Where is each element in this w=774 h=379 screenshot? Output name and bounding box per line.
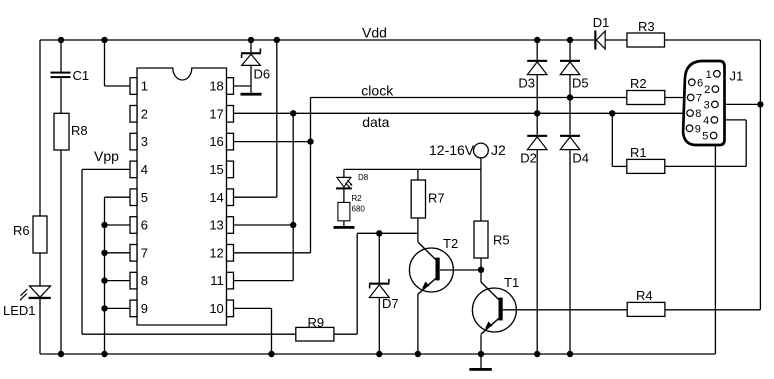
junction xyxy=(478,351,484,357)
svg-text:4: 4 xyxy=(141,162,148,177)
wire J2 down to R5 xyxy=(480,158,482,222)
capacitor C1 xyxy=(51,72,71,74)
svg-text:D2: D2 xyxy=(520,151,537,166)
svg-text:7: 7 xyxy=(696,93,702,105)
svg-text:9: 9 xyxy=(695,123,701,135)
svg-text:R4: R4 xyxy=(636,288,653,303)
J1 pin 1 xyxy=(714,71,721,78)
svg-text:18: 18 xyxy=(209,79,223,94)
svg-text:5: 5 xyxy=(702,131,708,143)
wire J2 branch to R7 and D8 xyxy=(344,168,481,170)
junction xyxy=(58,37,64,43)
wire ground bottom rail xyxy=(40,353,715,355)
wire D7 column xyxy=(378,233,380,282)
junction xyxy=(757,101,763,107)
J1 pin 7 xyxy=(687,94,694,101)
svg-text:12-16V: 12-16V xyxy=(429,142,475,158)
junction xyxy=(567,37,573,43)
wire clock net: pin16 stub xyxy=(234,141,311,143)
svg-text:12: 12 xyxy=(209,245,223,260)
wire R1 branch from data line xyxy=(611,113,613,166)
wire T2 emitter to ground rail xyxy=(417,294,419,354)
IC left pin boxes 1-9 xyxy=(130,78,137,95)
wire pin14 up to Vdd xyxy=(234,196,277,198)
resistor R1 xyxy=(627,159,665,173)
svg-text:R7: R7 xyxy=(428,191,445,206)
J1 pin 8 xyxy=(687,110,694,117)
svg-text:LED1: LED1 xyxy=(3,303,36,318)
svg-text:6: 6 xyxy=(697,77,703,89)
zener diode D6 xyxy=(241,52,261,54)
wire pins 5-9 ground column xyxy=(105,196,131,198)
wire T1 collector riser xyxy=(480,270,482,282)
junction xyxy=(58,351,64,357)
wire D6 column xyxy=(250,40,252,52)
svg-text:9: 9 xyxy=(141,301,148,316)
svg-text:6: 6 xyxy=(141,218,148,233)
J1 pin 9 xyxy=(686,125,693,132)
wire T2 base to R5/T1 node xyxy=(440,269,481,271)
svg-text:J2: J2 xyxy=(491,142,506,158)
wire R5 bottom to node xyxy=(480,258,482,270)
resistor R4 xyxy=(627,302,665,316)
junction xyxy=(307,138,313,144)
transistor T1 xyxy=(472,288,516,332)
J1 pin 4 xyxy=(711,117,718,124)
svg-text:D5: D5 xyxy=(572,76,589,91)
svg-text:Vpp: Vpp xyxy=(94,148,119,164)
resistor R6 xyxy=(33,216,47,253)
svg-text:D8: D8 xyxy=(358,173,369,182)
resistor R3 xyxy=(627,33,665,47)
wire pin stub xyxy=(105,224,131,226)
wire pin10 down to ground rail xyxy=(232,307,271,309)
wire D3/D2 column xyxy=(536,40,538,60)
zener diode D7 xyxy=(369,283,390,285)
resistor R8 xyxy=(54,113,69,150)
svg-text:D4: D4 xyxy=(572,151,589,166)
wire R9 right to Vpp-drive node xyxy=(334,333,357,335)
svg-text:7: 7 xyxy=(141,245,148,260)
junction xyxy=(290,110,296,116)
connector J2 12-16V input xyxy=(474,143,489,158)
junction xyxy=(567,94,573,100)
junction xyxy=(567,351,573,357)
wire R7 bottom to T2 collector node xyxy=(417,218,419,242)
IC U1 body xyxy=(137,68,227,325)
connector J1 DB9 outline xyxy=(683,61,724,145)
svg-text:D3: D3 xyxy=(518,76,535,91)
junction xyxy=(101,37,107,43)
svg-text:11: 11 xyxy=(210,273,224,288)
J1 pin 3 xyxy=(712,101,719,108)
svg-text:R3: R3 xyxy=(638,19,655,34)
svg-text:3: 3 xyxy=(704,99,710,111)
diode D3 xyxy=(527,60,547,62)
svg-text:1: 1 xyxy=(706,69,712,81)
IC right pin boxes 18-10 xyxy=(227,78,234,95)
svg-text:data: data xyxy=(362,114,389,130)
svg-text:R8: R8 xyxy=(71,123,88,138)
svg-text:R5: R5 xyxy=(493,233,510,248)
junction xyxy=(290,222,296,228)
junction xyxy=(274,37,280,43)
LED LED1 xyxy=(30,285,51,287)
wire pin stub xyxy=(105,252,131,254)
svg-text:T2: T2 xyxy=(443,236,458,251)
wire right rail (DB9 pin3 / R3 / R4 net) xyxy=(759,40,761,310)
junction xyxy=(101,222,107,228)
svg-text:D6: D6 xyxy=(254,67,271,82)
junction xyxy=(268,351,274,357)
wire clock line to R2 xyxy=(311,97,627,99)
J1 pin 6 xyxy=(689,79,696,86)
svg-text:4: 4 xyxy=(703,115,709,127)
wire DB9 pin3 to right rail xyxy=(718,103,760,105)
wire C1/R8 column xyxy=(60,40,62,72)
junction xyxy=(376,351,382,357)
junction xyxy=(376,230,382,236)
svg-text:1: 1 xyxy=(141,79,148,94)
diode D2 xyxy=(527,135,547,137)
junction xyxy=(101,250,107,256)
wire pin1 to Vdd branch xyxy=(104,40,106,86)
junction xyxy=(534,37,540,43)
wire data net (pin17 to DB9 pin8) xyxy=(234,112,688,114)
LED D8 xyxy=(337,176,351,178)
svg-text:5: 5 xyxy=(141,190,148,205)
svg-text:D1: D1 xyxy=(593,15,610,30)
svg-text:17: 17 xyxy=(209,106,223,121)
resistor R5 xyxy=(474,221,488,258)
J1 pin 2 xyxy=(712,86,719,93)
junction xyxy=(101,305,107,311)
transistor T2 xyxy=(409,248,453,292)
svg-text:R9: R9 xyxy=(308,315,325,330)
wire left rail xyxy=(39,40,41,216)
svg-text:2: 2 xyxy=(141,106,148,121)
svg-text:R6: R6 xyxy=(13,223,30,238)
junction xyxy=(415,351,421,357)
J1 pin 5 xyxy=(710,132,717,139)
svg-text:C1: C1 xyxy=(73,68,90,83)
ground under T1 xyxy=(469,368,492,371)
diode D1 xyxy=(594,31,596,50)
svg-text:D7: D7 xyxy=(382,296,399,311)
svg-text:680: 680 xyxy=(352,205,366,214)
wire R4 row: T1 base to right rail xyxy=(503,309,627,311)
svg-text:R2: R2 xyxy=(352,194,363,203)
wire D8 LED branch down xyxy=(343,169,345,177)
resistor R2 xyxy=(627,91,665,105)
svg-text:Vdd: Vdd xyxy=(362,25,387,41)
junction xyxy=(534,351,540,357)
wire T1 emitter to ground xyxy=(480,335,482,354)
diode D4 xyxy=(560,135,580,137)
ground under D6 xyxy=(241,93,262,96)
wire DB9 pin5 to ground rail xyxy=(714,139,716,354)
svg-text:10: 10 xyxy=(209,301,223,316)
ground under R2 xyxy=(334,226,355,229)
wire Vpp net: pin4 left and down xyxy=(82,168,130,170)
junction xyxy=(478,267,484,273)
wire pin stub xyxy=(105,307,131,309)
svg-text:8: 8 xyxy=(695,108,701,120)
svg-text:clock: clock xyxy=(361,83,394,99)
svg-text:13: 13 xyxy=(209,218,223,233)
wire D5/D4 column xyxy=(569,40,571,60)
svg-text:T1: T1 xyxy=(504,275,519,290)
svg-text:J1: J1 xyxy=(730,69,744,84)
resistor R7 xyxy=(411,180,425,218)
diode D5 xyxy=(560,60,580,62)
junction xyxy=(534,110,540,116)
junction xyxy=(101,351,107,357)
resistor R2 680 xyxy=(338,202,350,220)
svg-text:2: 2 xyxy=(704,84,710,96)
svg-text:16: 16 xyxy=(209,134,223,149)
svg-text:15: 15 xyxy=(209,162,223,177)
junction xyxy=(101,277,107,283)
wire R1 to DB9 pin4 xyxy=(665,165,746,167)
junction xyxy=(609,110,615,116)
resistor R9 xyxy=(296,327,334,341)
wire data column to pins 13 and 11 xyxy=(292,113,294,280)
wire clock net: riser and pin12 stub xyxy=(310,98,312,253)
wire Vdd top rail xyxy=(40,39,594,41)
svg-text:R2: R2 xyxy=(630,76,647,91)
svg-text:14: 14 xyxy=(209,190,223,205)
wire pin stub xyxy=(105,280,131,282)
wire pin18 to D6 anode xyxy=(234,85,252,87)
junction xyxy=(248,37,254,43)
svg-text:R1: R1 xyxy=(630,145,647,160)
svg-text:8: 8 xyxy=(141,273,148,288)
svg-text:3: 3 xyxy=(141,134,148,149)
